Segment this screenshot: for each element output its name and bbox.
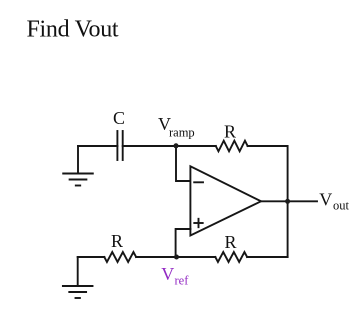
- svg-text:Find Vout: Find Vout: [27, 16, 119, 42]
- resistor R (top feedback): [216, 141, 248, 152]
- wire: non-inverting input jog down to bottom rail: [176, 229, 191, 257]
- wire: resistor to top-right corner, down right rail to bottom-right corner: [248, 146, 288, 257]
- svg-text:R: R: [224, 121, 236, 141]
- op-amp U1: [190, 166, 261, 235]
- node Vramp junction dot: [174, 143, 179, 148]
- ground (top-left): [63, 146, 93, 186]
- wire: left input wire to capacitor: [78, 145, 117, 147]
- node Vref junction dot: [174, 255, 179, 260]
- wire: resistor to node Vref: [136, 256, 215, 258]
- label Vout (output): [319, 190, 349, 213]
- label Vref (node name, violet): [161, 264, 189, 287]
- label Vramp (node name): [158, 114, 195, 140]
- wire: resistor to bottom-right corner: [247, 256, 288, 258]
- node Vout junction dot: [285, 199, 290, 204]
- svg-text:C: C: [113, 108, 125, 128]
- wire: bottom-left ground to resistor R: [78, 256, 105, 258]
- ground (bottom-left): [63, 257, 93, 298]
- wire: op-amp output to Vout: [261, 200, 317, 202]
- wire: inverting input (from node Vramp down into op-amp): [176, 146, 190, 181]
- wire: node Vramp to resistor R (top): [176, 145, 216, 147]
- svg-text:ramp: ramp: [169, 126, 195, 140]
- op-amp minus sign: [194, 181, 203, 183]
- capacitor C: [117, 131, 122, 160]
- svg-text:V: V: [161, 264, 174, 284]
- svg-text:R: R: [111, 231, 123, 251]
- resistor R (bottom-left): [104, 252, 136, 262]
- wire: capacitor to node Vramp: [123, 145, 176, 147]
- resistor R (bottom-right): [215, 252, 247, 262]
- op-amp plus sign: [194, 219, 202, 227]
- svg-text:out: out: [333, 198, 350, 212]
- svg-text:V: V: [319, 190, 332, 210]
- svg-text:ref: ref: [175, 273, 190, 287]
- svg-text:R: R: [225, 232, 237, 252]
